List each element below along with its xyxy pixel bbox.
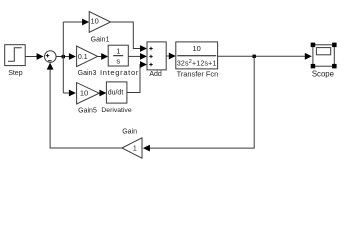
block Step <box>5 45 26 77</box>
svg-text:Step: Step <box>8 70 23 77</box>
gain Gain5 <box>77 83 100 115</box>
block Add <box>147 42 166 78</box>
svg-text:Gain3: Gain3 <box>78 70 97 77</box>
svg-text:Transfer Fcn: Transfer Fcn <box>177 70 219 79</box>
svg-text:s: s <box>116 57 120 66</box>
block Transfer Fcn <box>176 42 218 79</box>
node feedback junction <box>253 55 256 58</box>
wire feedback junction down to Gain <box>143 56 254 151</box>
svg-text:Gain: Gain <box>122 129 137 136</box>
gain Gain (feedback) <box>122 129 142 159</box>
svg-text:Gain5: Gain5 <box>78 107 97 114</box>
wire Gain5 to Derivative <box>99 90 106 97</box>
svg-text:1: 1 <box>116 47 120 56</box>
wire branch node down to Gain5 <box>63 90 76 97</box>
svg-text:32s2+12s+1: 32s2+12s+1 <box>177 59 217 67</box>
wire Sum to branch node and Gain3 <box>56 53 76 60</box>
sum S1 <box>45 51 57 63</box>
wire Gain3 to Integrator <box>98 53 109 60</box>
gain Gain3 <box>77 46 98 77</box>
svg-text:Add: Add <box>149 71 162 78</box>
wire Transfer Fcn to Scope <box>218 53 312 60</box>
gain Gain1 <box>89 12 110 44</box>
svg-text:10: 10 <box>80 89 88 98</box>
wire Integrator to Add input 2 <box>128 53 147 60</box>
svg-text:Integrator: Integrator <box>100 68 139 77</box>
block Derivative <box>101 82 131 114</box>
svg-text:10: 10 <box>193 44 201 53</box>
svg-text:0.1: 0.1 <box>78 54 88 61</box>
svg-text:du/dt: du/dt <box>108 90 124 97</box>
wire Gain to Sum bottom input <box>47 63 122 148</box>
wire branch node up to Gain1 <box>63 19 89 93</box>
node branch junction <box>62 55 65 58</box>
wire Add to Transfer Fcn <box>166 53 176 60</box>
wire Derivative to Add input 3 <box>127 61 147 92</box>
svg-text:Scope: Scope <box>312 69 334 78</box>
block Scope <box>311 43 337 79</box>
wire Step to Sum <box>25 53 43 60</box>
svg-text:10: 10 <box>91 16 99 25</box>
svg-text:Gain1: Gain1 <box>91 37 110 44</box>
block Integrator <box>100 45 139 77</box>
wire Gain1 to Add input 1 <box>111 22 147 52</box>
svg-text:1: 1 <box>133 146 137 153</box>
svg-text:Derivative: Derivative <box>101 107 131 114</box>
